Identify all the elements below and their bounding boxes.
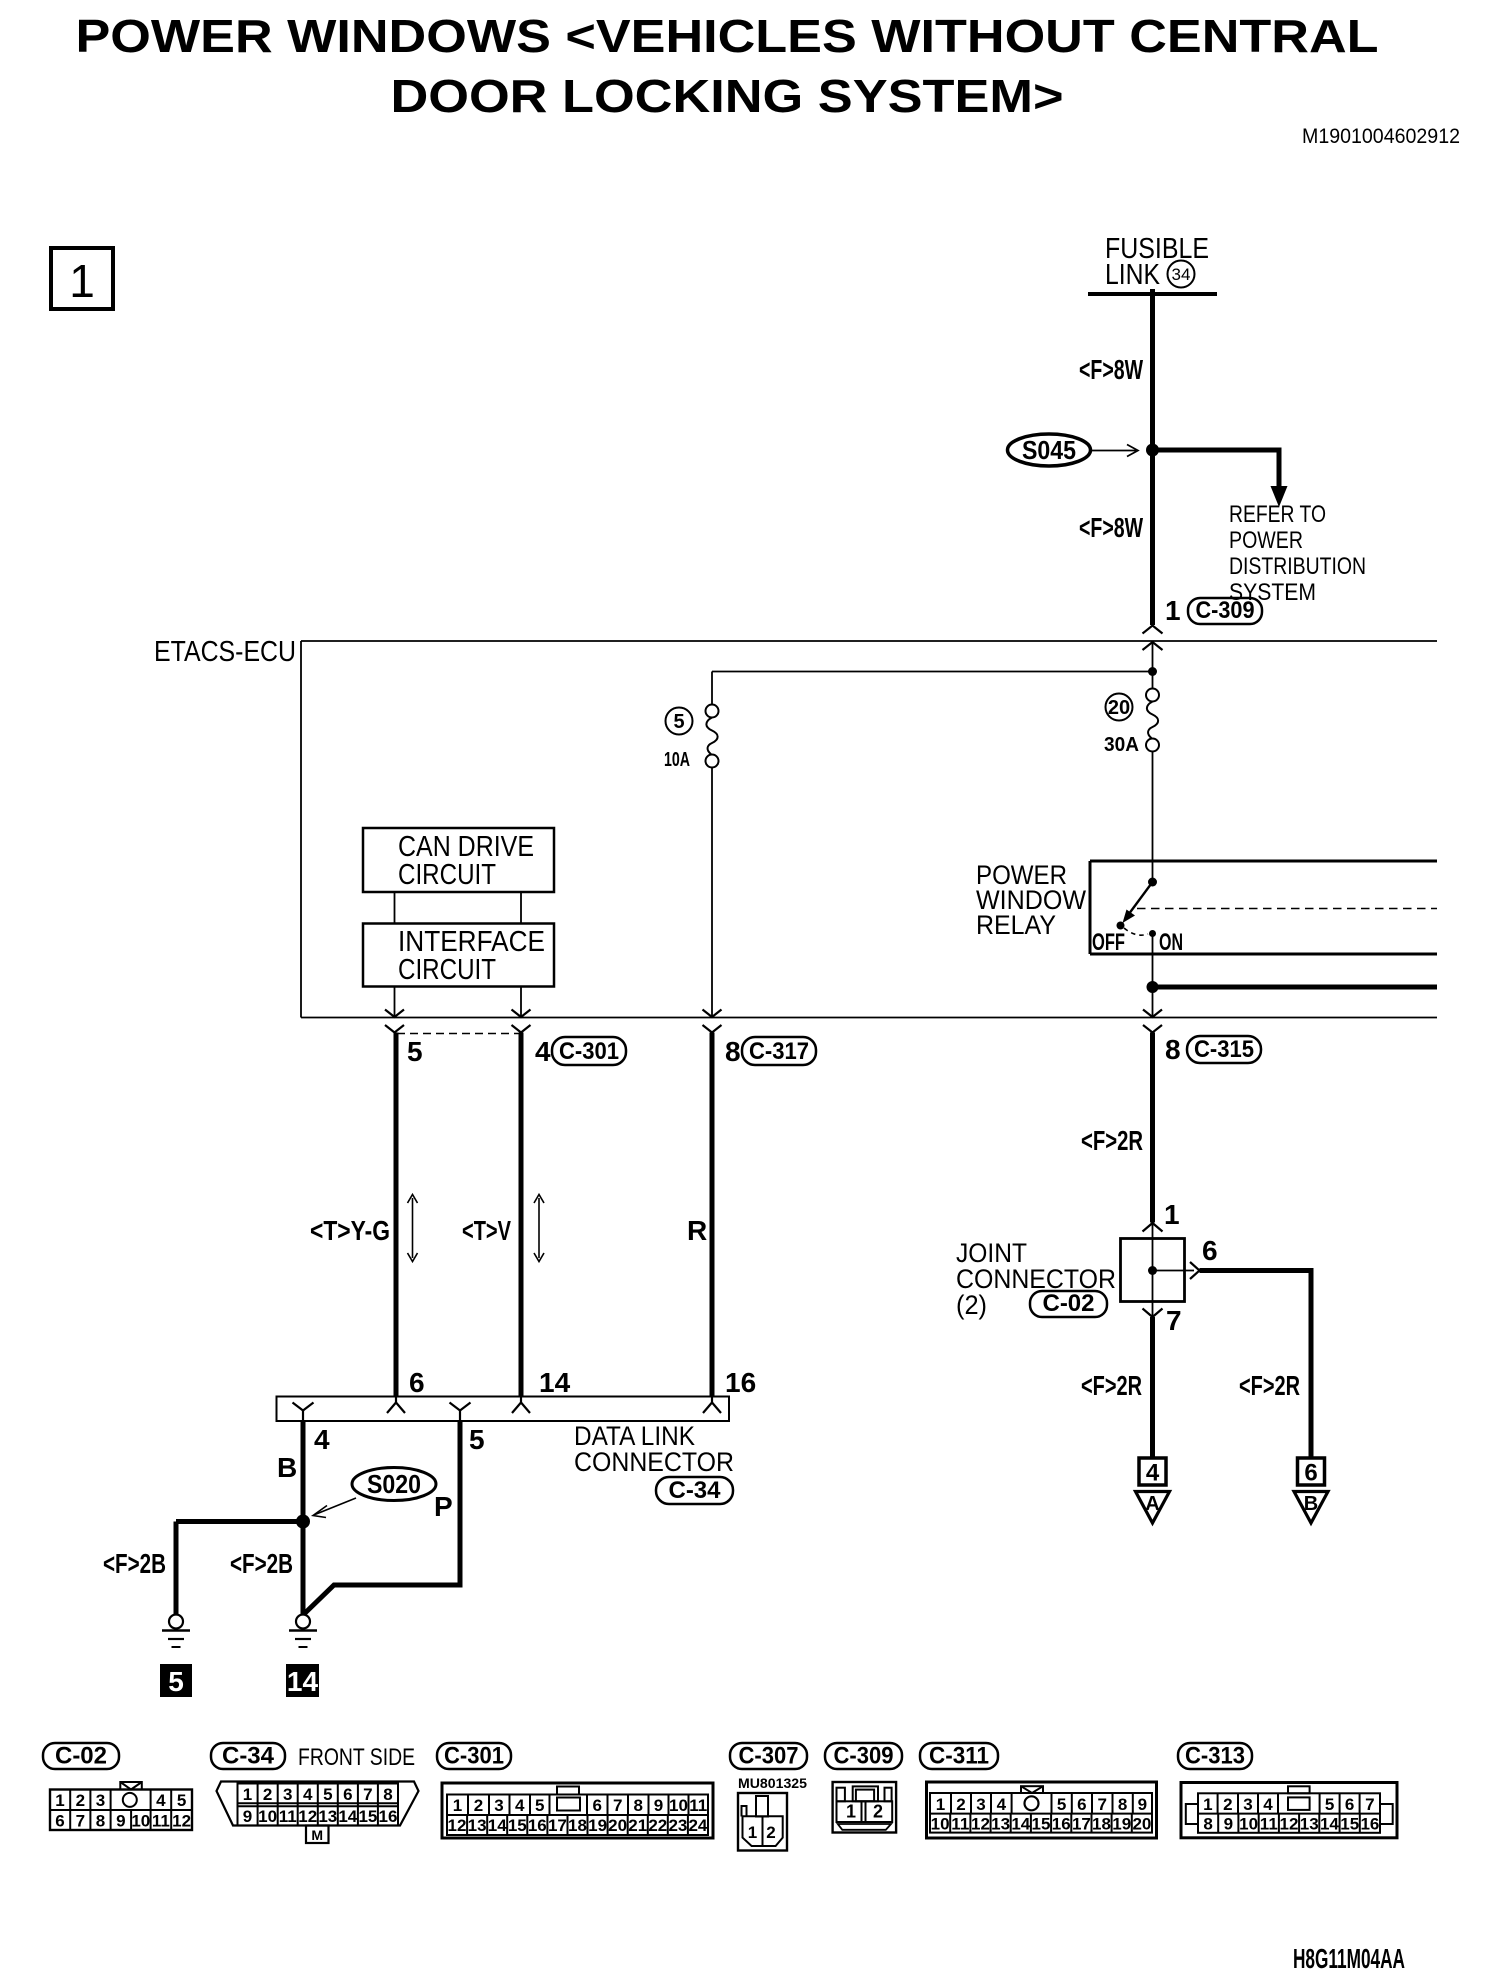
DLC chevron pin 6 <box>387 1397 405 1414</box>
svg-text:<F>2R: <F>2R <box>1239 1370 1300 1401</box>
svg-text:17: 17 <box>548 1816 567 1835</box>
svg-text:6: 6 <box>1345 1795 1354 1814</box>
svg-text:8: 8 <box>725 1036 741 1067</box>
svg-text:7: 7 <box>1097 1795 1106 1814</box>
ETACS-ECU box top edge <box>301 640 1437 642</box>
svg-text:4: 4 <box>303 1785 313 1804</box>
svg-text:14: 14 <box>338 1807 357 1826</box>
wire C-309 pin to feed junction <box>1152 642 1154 689</box>
fuse 5 circled label <box>666 708 693 735</box>
svg-text:5: 5 <box>1057 1795 1066 1814</box>
svg-text:1: 1 <box>55 1791 64 1810</box>
svg-text:C-301: C-301 <box>444 1743 504 1770</box>
joint connector pin 7 chevron <box>1143 1309 1163 1318</box>
relay box top edge <box>1090 860 1437 863</box>
svg-text:R: R <box>687 1215 707 1246</box>
dashed tie between pin 5 and pin 4 <box>397 1033 519 1035</box>
wire fuse 5 to pin 8 C-317 <box>711 768 713 1018</box>
connector chevron C-309 lower <box>1143 642 1163 650</box>
svg-text:REFER TO: REFER TO <box>1229 501 1326 528</box>
svg-text:24: 24 <box>688 1816 707 1835</box>
ground ref box 14 <box>286 1664 319 1697</box>
svg-text:18: 18 <box>568 1816 587 1835</box>
data link connector box <box>277 1397 730 1422</box>
refer to power distribution system note <box>1229 501 1366 606</box>
relay coil dashed line <box>1137 908 1437 910</box>
svg-text:21: 21 <box>628 1816 647 1835</box>
svg-text:3: 3 <box>96 1791 105 1810</box>
svg-text:<F>2B: <F>2B <box>103 1548 166 1579</box>
power window relay label <box>976 860 1086 940</box>
fusible link bus bar <box>1088 292 1217 296</box>
wire CAN to interface left <box>394 892 396 924</box>
svg-text:5: 5 <box>177 1791 186 1810</box>
svg-text:8: 8 <box>1165 1034 1181 1065</box>
svg-text:13: 13 <box>468 1816 487 1835</box>
off-page triangle B <box>1294 1492 1328 1524</box>
RELAY <box>976 860 1437 1017</box>
svg-text:6: 6 <box>1304 1460 1317 1487</box>
svg-text:6: 6 <box>1202 1235 1218 1266</box>
svg-text:C-34: C-34 <box>222 1743 275 1770</box>
svg-text:6: 6 <box>409 1367 425 1398</box>
svg-text:OFF: OFF <box>1092 929 1125 956</box>
wire feed bus to fuse 5 <box>711 672 713 706</box>
DLC chevron pin 4 <box>293 1403 314 1422</box>
svg-text:FRONT SIDE: FRONT SIDE <box>298 1744 415 1771</box>
svg-text:C-313: C-313 <box>1185 1743 1245 1770</box>
svg-text:2: 2 <box>474 1796 483 1815</box>
svg-text:<T>V: <T>V <box>462 1215 511 1246</box>
svg-text:RELAY: RELAY <box>976 910 1056 940</box>
svg-text:20: 20 <box>608 1816 627 1835</box>
svg-text:15: 15 <box>358 1807 377 1826</box>
svg-text:P: P <box>434 1491 453 1522</box>
ground symbol left <box>169 1615 183 1629</box>
svg-text:9: 9 <box>116 1812 125 1831</box>
svg-text:13: 13 <box>991 1815 1010 1834</box>
svg-text:1: 1 <box>846 1802 856 1822</box>
svg-text:14: 14 <box>1320 1815 1339 1834</box>
relay OFF-ON dashed arc <box>1124 928 1148 935</box>
svg-text:<F>2R: <F>2R <box>1081 1370 1142 1401</box>
connector C-34 pinout <box>217 1782 419 1844</box>
connector C-309 pinout <box>833 1782 897 1833</box>
svg-text:C-309: C-309 <box>834 1743 894 1770</box>
TOPFEED <box>1008 233 1367 650</box>
joint connector internal wire vertical <box>1152 1223 1154 1317</box>
svg-text:POWER WINDOWS <VEHICLES WITHOU: POWER WINDOWS <VEHICLES WITHOUT CENTRAL <box>76 10 1379 62</box>
svg-text:15: 15 <box>1032 1815 1051 1834</box>
node S045 junction dot <box>1146 444 1159 457</box>
svg-text:9: 9 <box>654 1796 663 1815</box>
svg-text:C-309: C-309 <box>1196 597 1255 624</box>
wire internal feed bus <box>712 671 1153 673</box>
connector label C-313 bottom <box>1178 1743 1252 1769</box>
svg-text:3: 3 <box>494 1796 503 1815</box>
relay OFF contact <box>1117 922 1125 930</box>
DLC chevron pin 16 <box>703 1397 721 1414</box>
wire interface to pin 4 <box>520 987 522 1018</box>
svg-text:LINK: LINK <box>1105 259 1161 291</box>
svg-text:1: 1 <box>1203 1795 1212 1814</box>
svg-text:5: 5 <box>535 1796 544 1815</box>
CAN drive circuit box <box>363 828 554 892</box>
svg-text:4: 4 <box>515 1796 525 1815</box>
svg-text:1: 1 <box>1164 1199 1180 1230</box>
svg-text:C-317: C-317 <box>749 1038 809 1065</box>
svg-text:A: A <box>1145 1493 1159 1515</box>
svg-text:POWER: POWER <box>1229 527 1303 554</box>
GROUNDS <box>160 1615 319 1698</box>
svg-text:34: 34 <box>1172 265 1191 284</box>
svg-text:CIRCUIT: CIRCUIT <box>398 859 496 891</box>
svg-text:8: 8 <box>383 1785 392 1804</box>
svg-text:10: 10 <box>131 1812 150 1831</box>
connector label C-34 <box>656 1477 733 1504</box>
svg-text:8: 8 <box>1118 1795 1127 1814</box>
svg-text:22: 22 <box>648 1816 667 1835</box>
svg-text:1: 1 <box>69 255 95 307</box>
svg-text:11: 11 <box>689 1796 707 1815</box>
svg-text:4: 4 <box>1263 1795 1273 1814</box>
svg-text:ON: ON <box>1159 929 1183 956</box>
svg-text:C-307: C-307 <box>739 1743 799 1770</box>
fuse 20 circled label <box>1106 694 1133 721</box>
svg-text:2: 2 <box>766 1823 775 1842</box>
svg-text:12: 12 <box>1280 1815 1299 1834</box>
wire pin5 to DLC pin 6 <box>394 1033 399 1397</box>
svg-text:2: 2 <box>873 1802 883 1822</box>
svg-text:13: 13 <box>1300 1815 1319 1834</box>
wire branch right from relay output <box>1153 985 1438 990</box>
svg-text:CONNECTOR: CONNECTOR <box>574 1447 734 1477</box>
svg-text:9: 9 <box>243 1807 252 1826</box>
svg-text:10: 10 <box>1239 1815 1258 1834</box>
svg-text:5: 5 <box>168 1666 184 1697</box>
svg-text:14: 14 <box>287 1666 319 1697</box>
joint connector pin 6 chevron <box>1190 1262 1200 1279</box>
node relay output branch dot <box>1147 981 1159 993</box>
connector label C-02 bottom <box>43 1743 119 1769</box>
wire CAN to interface right <box>520 892 522 924</box>
svg-text:11: 11 <box>1260 1815 1278 1834</box>
svg-text:11: 11 <box>152 1812 170 1831</box>
svg-text:2: 2 <box>263 1785 272 1804</box>
svg-text:DISTRIBUTION: DISTRIBUTION <box>1229 553 1366 580</box>
svg-text:20: 20 <box>1132 1815 1151 1834</box>
svg-text:<F>2R: <F>2R <box>1081 1125 1143 1156</box>
chevrons pin 4 at ETACS bottom <box>512 1010 531 1018</box>
svg-text:3: 3 <box>976 1795 985 1814</box>
wire DLC pin 4 to ground <box>301 1421 306 1614</box>
wire S045 to connector C-309 <box>1150 450 1155 625</box>
connector C-311 pinout <box>927 1782 1157 1838</box>
relay switch arm <box>1127 882 1153 917</box>
svg-text:10: 10 <box>931 1815 950 1834</box>
svg-text:10: 10 <box>669 1796 688 1815</box>
connector label C-317 <box>742 1037 816 1065</box>
wire relay output <box>1152 934 1154 1018</box>
CONNECTORS <box>43 1743 1405 1975</box>
ETACS-ECU box left edge <box>300 641 302 1018</box>
svg-text:<F>8W: <F>8W <box>1079 354 1143 385</box>
svg-text:23: 23 <box>668 1816 687 1835</box>
svg-text:S020: S020 <box>367 1469 421 1499</box>
svg-text:2: 2 <box>956 1795 965 1814</box>
svg-text:7: 7 <box>1365 1795 1374 1814</box>
svg-text:16: 16 <box>528 1816 547 1835</box>
svg-text:11: 11 <box>951 1815 969 1834</box>
svg-text:3: 3 <box>283 1785 292 1804</box>
svg-text:16: 16 <box>725 1367 756 1398</box>
svg-text:12: 12 <box>172 1812 191 1831</box>
svg-text:12: 12 <box>448 1816 467 1835</box>
connector C-307 pinout <box>738 1793 787 1851</box>
svg-text:4: 4 <box>314 1424 330 1455</box>
connector label C-301 <box>552 1037 626 1065</box>
data link connector label <box>574 1421 734 1477</box>
svg-text:C-02: C-02 <box>1043 1290 1095 1317</box>
fusible link 34 label <box>1105 233 1209 291</box>
splice S045 <box>1008 434 1091 466</box>
TITLE <box>51 10 1460 309</box>
joint connector box C-02 <box>1121 1239 1185 1302</box>
chevrons pin 5 at ETACS bottom <box>385 1010 404 1018</box>
connector label C-301 bottom <box>437 1743 511 1769</box>
svg-text:5: 5 <box>407 1036 423 1067</box>
arrowhead to power distribution <box>1271 486 1288 507</box>
off-page ref square 6 <box>1298 1458 1325 1485</box>
svg-text:15: 15 <box>1340 1815 1359 1834</box>
MIDWIRES <box>310 1033 1153 1397</box>
svg-text:(2): (2) <box>956 1290 987 1320</box>
svg-text:18: 18 <box>1092 1815 1111 1834</box>
svg-text:7: 7 <box>613 1796 622 1815</box>
wire pin4 to DLC pin 14 <box>519 1033 524 1397</box>
chevrons pin 8 C-315 at ETACS bottom <box>1143 1010 1162 1018</box>
ETACS <box>154 636 1437 1067</box>
svg-text:16: 16 <box>1360 1815 1379 1834</box>
svg-text:MU801325: MU801325 <box>738 1775 807 1791</box>
svg-text:7: 7 <box>363 1785 372 1804</box>
relay box left edge <box>1089 861 1092 954</box>
wire pin8 C-317 to DLC pin 16 <box>710 1033 715 1397</box>
fuse 5 symbol <box>706 705 719 718</box>
connector label C-34 bottom <box>211 1743 285 1769</box>
svg-text:10: 10 <box>258 1807 277 1826</box>
wire fusible link to S045 node <box>1150 289 1155 450</box>
svg-text:C-315: C-315 <box>1194 1036 1254 1063</box>
svg-text:3: 3 <box>1243 1795 1252 1814</box>
svg-text:14: 14 <box>539 1367 571 1398</box>
svg-text:B: B <box>277 1452 297 1483</box>
ground symbol right <box>296 1615 310 1629</box>
svg-text:6: 6 <box>55 1812 64 1831</box>
connector C-313 pinout <box>1181 1783 1397 1838</box>
interface circuit box <box>363 924 554 987</box>
relay box bottom edge <box>1090 953 1437 956</box>
svg-text:<F>2B: <F>2B <box>230 1548 293 1579</box>
svg-text:13: 13 <box>318 1807 337 1826</box>
svg-text:8: 8 <box>1203 1815 1212 1834</box>
svg-text:14: 14 <box>488 1816 507 1835</box>
svg-text:ETACS-ECU: ETACS-ECU <box>154 636 296 668</box>
svg-text:1: 1 <box>1165 595 1181 626</box>
svg-text:15: 15 <box>508 1816 527 1835</box>
ground ref box 5 <box>160 1664 192 1697</box>
node S020 junction dot <box>296 1515 310 1529</box>
node feed junction dot <box>1148 667 1157 676</box>
joint connector label <box>956 1238 1116 1320</box>
wire joint pin 6 right and down <box>1200 1271 1312 1459</box>
off-page triangle A <box>1136 1492 1170 1524</box>
fuse 20 symbol <box>1146 689 1159 702</box>
wire C-315 to joint connector pin 1 <box>1150 1033 1155 1223</box>
svg-text:9: 9 <box>1138 1795 1147 1814</box>
svg-text:6: 6 <box>1077 1795 1086 1814</box>
svg-text:1: 1 <box>748 1823 757 1842</box>
svg-text:16: 16 <box>379 1807 398 1826</box>
svg-text:5: 5 <box>323 1785 332 1804</box>
wire branch to power distribution <box>1153 450 1280 490</box>
svg-text:S045: S045 <box>1022 435 1076 465</box>
ETACS-ECU box bottom edge <box>301 1017 1437 1019</box>
relay ON contact <box>1149 930 1156 937</box>
joint connector center node <box>1148 1266 1157 1275</box>
svg-text:10A: 10A <box>664 749 690 771</box>
svg-text:2: 2 <box>1223 1795 1232 1814</box>
svg-text:1: 1 <box>243 1785 252 1804</box>
svg-text:11: 11 <box>279 1807 297 1826</box>
svg-text:30A: 30A <box>1104 734 1139 756</box>
connector C-02 pinout <box>50 1782 192 1830</box>
svg-text:12: 12 <box>298 1807 317 1826</box>
svg-text:M1901004602912: M1901004602912 <box>1302 125 1460 148</box>
svg-text:1: 1 <box>936 1795 945 1814</box>
svg-text:5: 5 <box>469 1424 485 1455</box>
S020 pointer arrow <box>315 1498 356 1515</box>
svg-text:<F>8W: <F>8W <box>1079 512 1143 543</box>
svg-text:C-34: C-34 <box>669 1477 722 1504</box>
connector label C-309 bottom <box>825 1743 902 1769</box>
svg-text:19: 19 <box>588 1816 607 1835</box>
svg-text:4: 4 <box>535 1036 551 1067</box>
connector label C-02 <box>1030 1291 1107 1317</box>
relay switch arm arrowhead <box>1123 910 1136 924</box>
fusible link circled 34 <box>1168 261 1195 288</box>
chevrons pin 8 C-317 at ETACS bottom <box>703 1010 722 1018</box>
svg-text:4: 4 <box>997 1795 1007 1814</box>
svg-text:1: 1 <box>453 1796 462 1815</box>
wire interface to pin 5 <box>394 987 396 1018</box>
svg-text:17: 17 <box>1072 1815 1091 1834</box>
off-page ref square 4 <box>1139 1458 1166 1485</box>
splice S020 <box>352 1468 436 1501</box>
DLC <box>103 1367 756 1615</box>
svg-text:M: M <box>311 1827 323 1843</box>
wire DLC pin 5 to ground <box>304 1421 461 1615</box>
wire joint pin 7 down <box>1150 1317 1155 1458</box>
relay switch pivot node <box>1148 878 1157 887</box>
svg-text:20: 20 <box>1108 697 1130 719</box>
bidirectional arrow left <box>412 1198 414 1258</box>
wire fuse 20 to relay <box>1152 752 1154 883</box>
connector label C-309 <box>1188 598 1262 624</box>
svg-text:B: B <box>1304 1493 1318 1515</box>
svg-text:16: 16 <box>1052 1815 1071 1834</box>
svg-text:8: 8 <box>633 1796 642 1815</box>
joint connector chevron pin 1 <box>1143 1223 1163 1232</box>
DLC chevron pin 14 <box>512 1397 530 1414</box>
joint connector internal wire horizontal <box>1153 1270 1195 1272</box>
svg-text:6: 6 <box>343 1785 352 1804</box>
svg-text:8: 8 <box>96 1812 105 1831</box>
wire branch to left ground <box>176 1519 303 1524</box>
S045 pointer arrow <box>1092 450 1136 452</box>
page number box 1 <box>51 248 113 309</box>
bidirectional arrow right <box>538 1198 540 1258</box>
connector C-301 pinout <box>442 1783 713 1838</box>
svg-text:7: 7 <box>1166 1305 1182 1336</box>
svg-text:6: 6 <box>592 1796 601 1815</box>
svg-text:<T>Y-G: <T>Y-G <box>310 1215 390 1246</box>
svg-text:5: 5 <box>673 711 684 733</box>
svg-text:C-02: C-02 <box>55 1743 107 1770</box>
svg-text:C-301: C-301 <box>559 1038 619 1065</box>
svg-text:2: 2 <box>76 1791 85 1810</box>
svg-text:4: 4 <box>1146 1460 1160 1487</box>
DLC chevron pin 5 <box>450 1403 471 1422</box>
svg-text:19: 19 <box>1112 1815 1131 1834</box>
svg-text:4: 4 <box>156 1791 166 1810</box>
svg-text:5: 5 <box>1325 1795 1334 1814</box>
JOINT <box>956 1199 1328 1523</box>
connector chevron C-309 upper <box>1143 626 1163 634</box>
svg-text:9: 9 <box>1224 1815 1233 1834</box>
connector label C-315 <box>1187 1036 1261 1063</box>
svg-text:DOOR LOCKING SYSTEM>: DOOR LOCKING SYSTEM> <box>391 70 1064 122</box>
svg-text:7: 7 <box>76 1812 85 1831</box>
svg-text:14: 14 <box>1011 1815 1030 1834</box>
connector label C-311 bottom <box>920 1743 998 1769</box>
connector label C-307 bottom <box>730 1743 807 1769</box>
svg-text:12: 12 <box>971 1815 990 1834</box>
svg-text:CIRCUIT: CIRCUIT <box>398 954 496 986</box>
svg-text:H8G11M04AA: H8G11M04AA <box>1293 1943 1405 1974</box>
svg-text:C-311: C-311 <box>929 1743 989 1770</box>
